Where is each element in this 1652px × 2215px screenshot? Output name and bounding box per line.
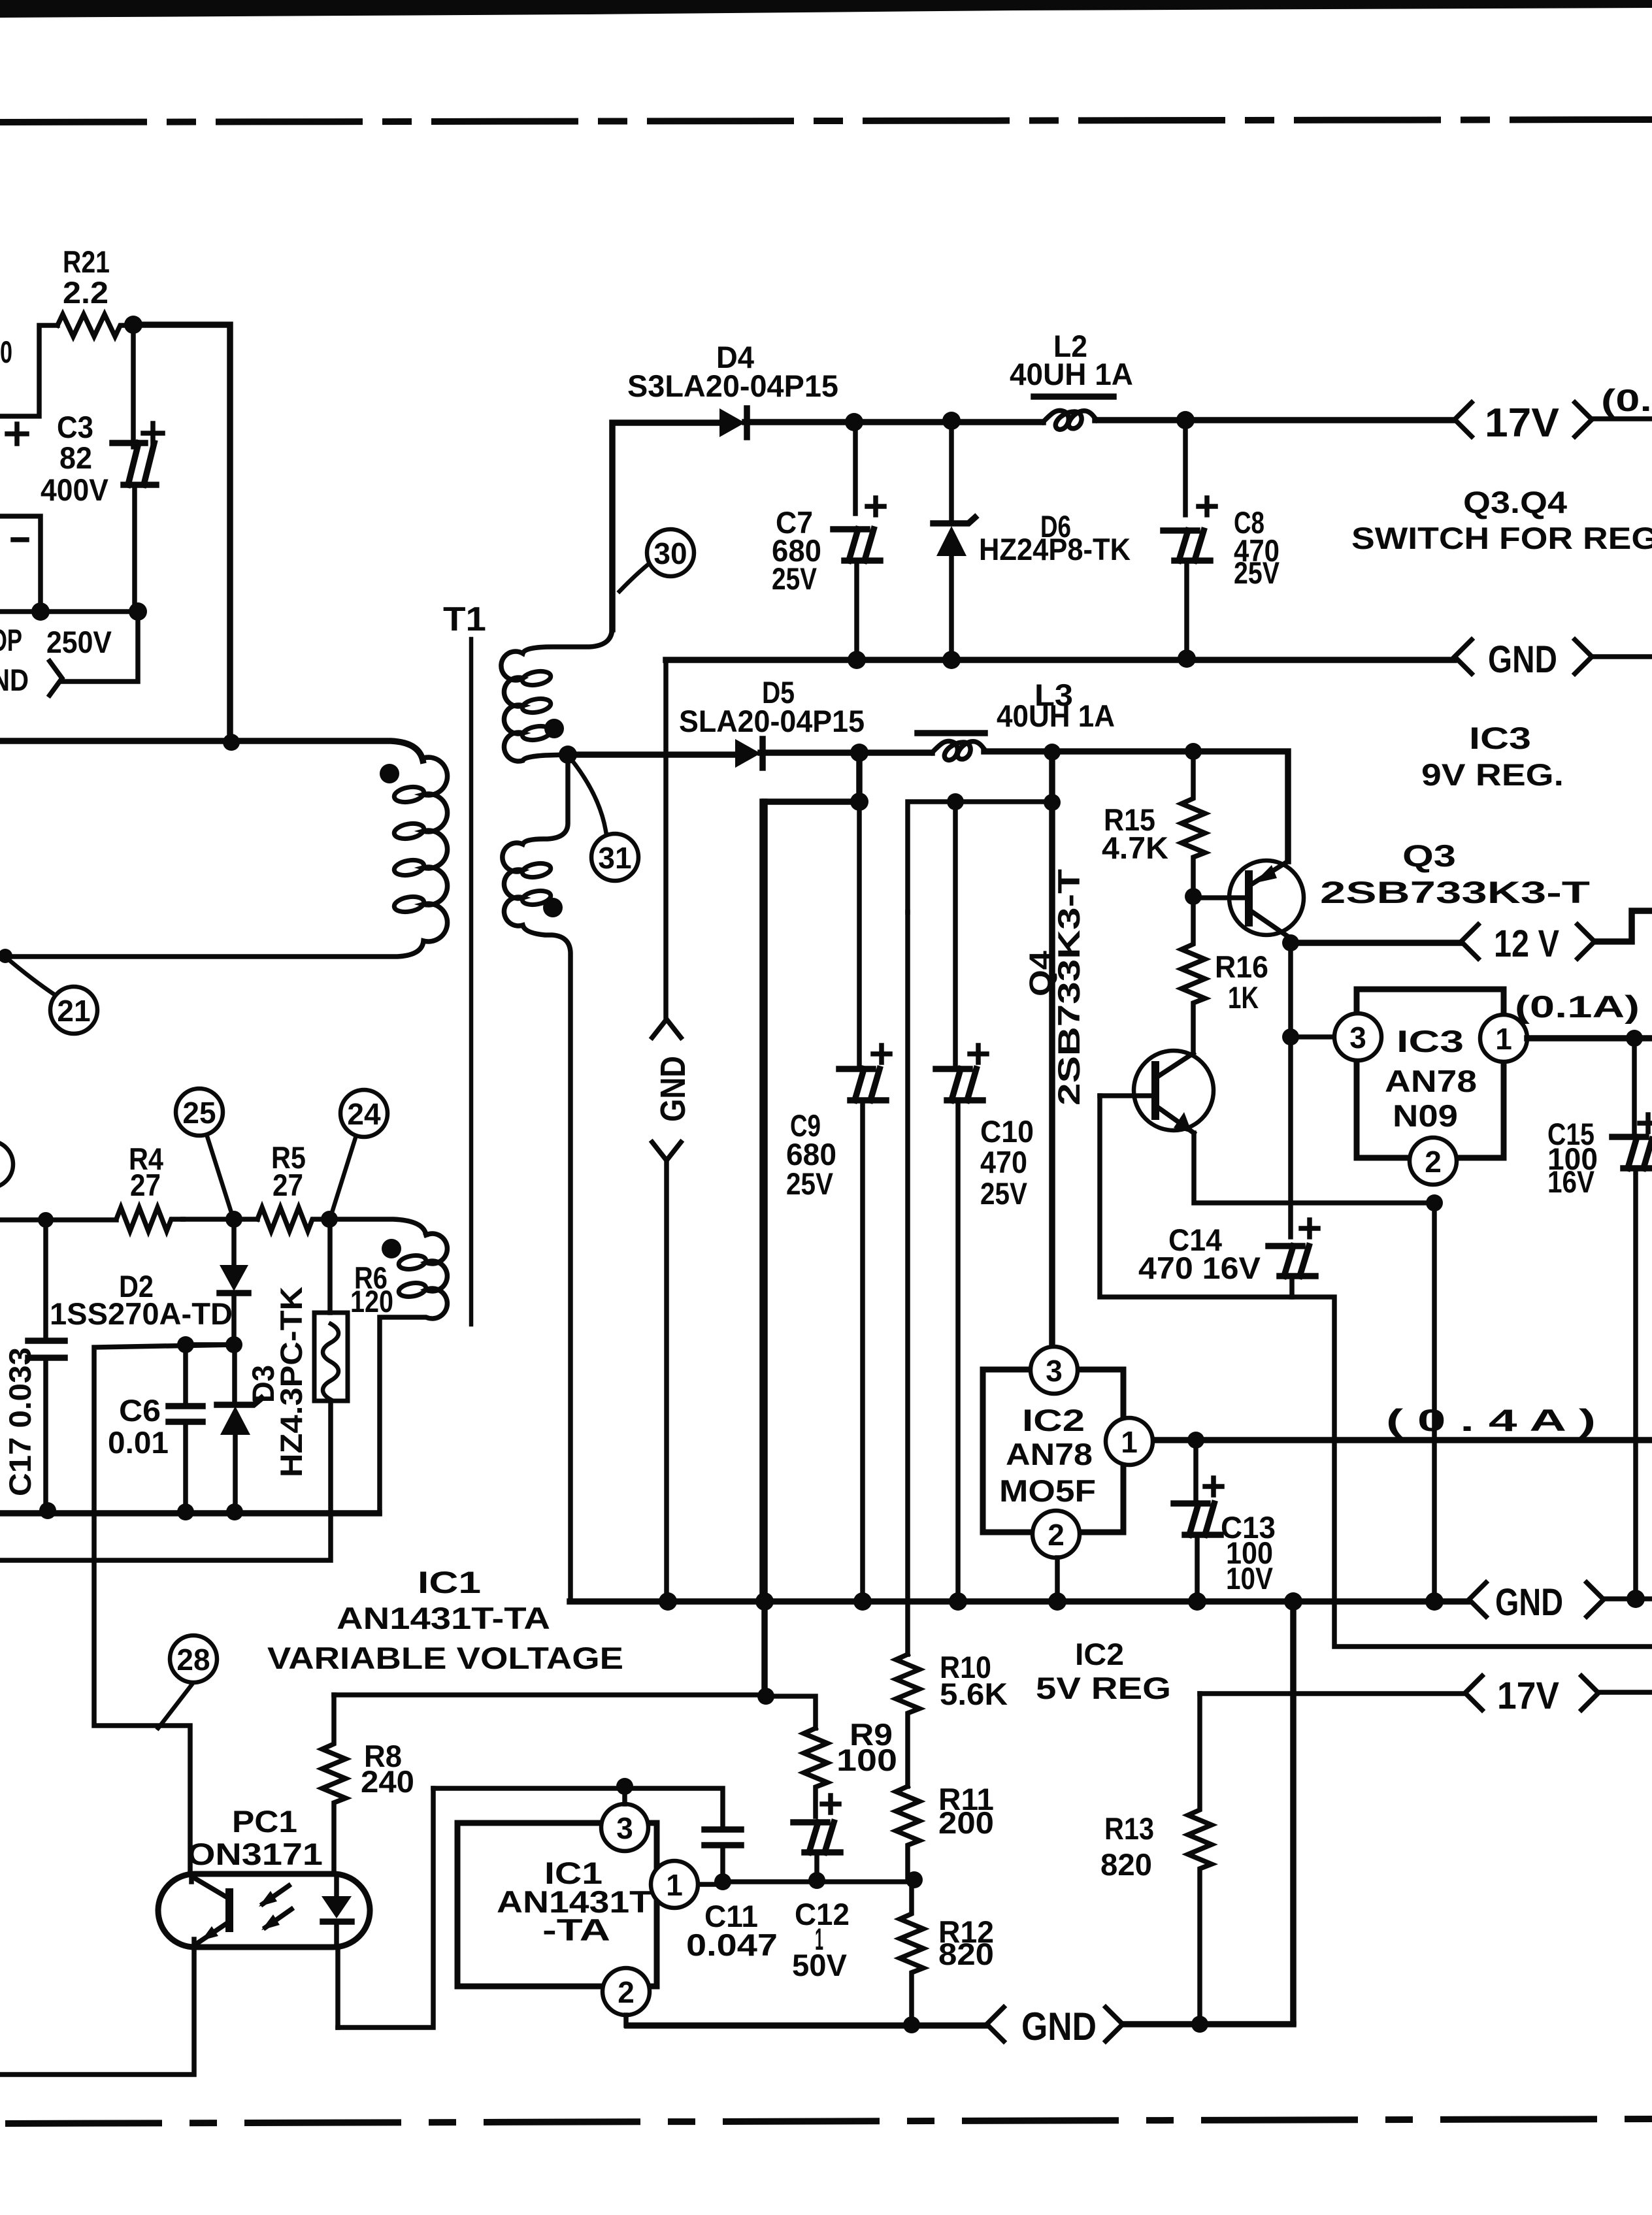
svg-text:IC3: IC3: [1396, 1024, 1464, 1058]
plus C10: [970, 1045, 987, 1062]
svg-text:R16: R16: [1215, 949, 1268, 984]
junction (1610,1228): [1044, 794, 1061, 811]
T1 secondary winding 1: [501, 628, 612, 761]
circled 31: [591, 834, 638, 881]
wire C10 branch: [953, 802, 958, 1065]
circled 25: [176, 1089, 223, 1136]
svg-text:25V: 25V: [1234, 555, 1280, 590]
plus C3: [143, 423, 163, 443]
label underlines L2 L3: [1034, 393, 1114, 400]
capacitor C7: [833, 529, 880, 561]
optocoupler PC1: [158, 1874, 370, 1947]
wire PC1 emitter to page edge: [0, 1947, 194, 2075]
svg-text:(0.1A): (0.1A): [1515, 989, 1640, 1024]
junction (2195,2451): [1425, 1592, 1444, 1611]
wire IC3 pin2 rail down: [1432, 1203, 1437, 1601]
svg-text:R21: R21: [63, 244, 110, 279]
resistor R10: [896, 1654, 919, 1786]
junction (284,2058): [177, 1336, 194, 1353]
svg-text:16V: 16V: [1547, 1164, 1595, 1199]
phase dot (596,1184): [380, 764, 399, 783]
svg-text:1: 1: [1121, 1425, 1138, 1459]
junction (1832,2451): [1188, 1592, 1206, 1611]
diode D4: [719, 408, 745, 437]
resistor R5: [257, 1207, 324, 1231]
IC2 pin 1: [1106, 1418, 1153, 1465]
wire L3 to Q3 emitter corner: [984, 751, 1288, 861]
wire 17V to page edge: [1592, 416, 1652, 421]
wire node R21-C3 to vertical rail: [133, 325, 230, 742]
connector GND top: [1455, 640, 1472, 674]
svg-text:27: 27: [273, 1168, 303, 1202]
svg-text:N09: N09: [1393, 1098, 1458, 1133]
svg-text:2: 2: [1425, 1145, 1442, 1179]
top chain border line: [0, 120, 1652, 122]
svg-text:25V: 25V: [772, 561, 818, 596]
svg-text:40UH 1A: 40UH 1A: [1010, 357, 1133, 391]
T1 core: [469, 639, 474, 1324]
wire 12V to page edge top corner: [1594, 911, 1652, 942]
wire IC2 pin2 to GND bus: [1055, 1558, 1060, 1601]
svg-text:IC2: IC2: [1022, 1403, 1085, 1437]
IC2 pin 3: [1031, 1347, 1078, 1394]
lower GND bus: [627, 2022, 985, 2029]
svg-text:3: 3: [1349, 1021, 1366, 1055]
wire thick rail to R8/R9 node: [761, 802, 768, 1696]
inductor L2: [1043, 410, 1097, 429]
junction (1816,1008): [1178, 649, 1196, 668]
scan top black bar: [0, 0, 1652, 18]
svg-text:2SB733K3-T: 2SB733K3-T: [1320, 875, 1590, 910]
GND vertical rail with inline connector: [663, 660, 669, 1017]
wire IC3 pin1 to 0.1A output: [1527, 1035, 1652, 1042]
IC3 box: [1357, 989, 1504, 1158]
svg-text:1SS270A-TD: 1SS270A-TD: [50, 1296, 233, 1331]
wire Q3 12V node: [1291, 940, 1460, 946]
wire D2 branch: [231, 1219, 237, 1264]
connector GND mid: [1469, 1583, 1486, 1616]
svg-text:100: 100: [836, 1743, 897, 1777]
IC3 pin 1: [1480, 1015, 1527, 1062]
svg-text:SLA20-04P15: SLA20-04P15: [679, 704, 865, 738]
junction (1399,2877): [906, 1871, 923, 1888]
resistor R9: [804, 1728, 827, 1816]
wire GND top to page edge: [1592, 654, 1652, 659]
phase dot (846,1389): [543, 898, 563, 917]
junction (1466,2451): [949, 1592, 967, 1611]
plus left edge: [7, 424, 27, 444]
wire IC1 pin3 rail: [622, 1786, 627, 1804]
junction (359,2314): [226, 1503, 243, 1520]
wire C13 branch: [1193, 1440, 1198, 1500]
svg-text:R13: R13: [1104, 1811, 1154, 1846]
capacitor C15: [1612, 1137, 1652, 1168]
capacitor C13: [1174, 1503, 1221, 1535]
wire Q4 collector to IC3 pin2: [1194, 1133, 1433, 1203]
svg-text:5.6K: 5.6K: [940, 1677, 1008, 1711]
box cut at left edge (C2): [0, 516, 41, 602]
connector 17V lower: [1465, 1676, 1482, 1710]
svg-text:470: 470: [980, 1145, 1027, 1179]
svg-text:C3: C3: [57, 410, 93, 444]
IC1 pin 2: [603, 1968, 650, 2015]
svg-text:AN1431T-TA: AN1431T-TA: [337, 1601, 550, 1635]
svg-text:25V: 25V: [786, 1166, 834, 1201]
capacitor C12: [793, 1822, 840, 1852]
junction (211,936): [129, 602, 147, 621]
wire IC1 pin1 rail: [698, 1882, 721, 1887]
leader circle 30: [619, 563, 650, 591]
(0.4A) bus from IC2 pin1: [1153, 1437, 1652, 1443]
svg-text:24: 24: [347, 1097, 381, 1131]
transistor Q3: [1229, 861, 1304, 935]
wire R5 to R6 winding: [324, 1219, 426, 1235]
junction (2501,1589): [1626, 1030, 1643, 1047]
junction (2195,1841): [1426, 1194, 1443, 1211]
svg-text:ON3171: ON3171: [187, 1837, 323, 1871]
resistor R13: [1188, 1694, 1212, 2024]
svg-text:ND: ND: [0, 663, 29, 697]
resistor R16: [1181, 896, 1205, 1052]
junction (8,1463): [0, 949, 12, 963]
svg-text:C6: C6: [119, 1393, 161, 1428]
svg-text:9V REG.: 9V REG.: [1421, 757, 1564, 792]
wire C15 branch: [1632, 1038, 1637, 1134]
svg-text:Q3.Q4: Q3.Q4: [1463, 485, 1567, 519]
wire D6 branch: [949, 420, 954, 521]
wire 28 net: D2/D3 node to PC1 collector: [94, 1345, 235, 1874]
svg-text:5V REG: 5V REG: [1036, 1671, 1171, 1705]
wire R4 to R5: [183, 1217, 257, 1222]
junction (1462,1227): [947, 793, 964, 810]
wire LED cathode loop: [338, 1788, 433, 2027]
T1 secondary winding 2: [503, 755, 570, 1601]
bus D2/D3/C6/C17 ground rail: [0, 1510, 379, 1517]
main GND bus mid: [570, 1598, 1468, 1605]
wire R10 rail down: [905, 912, 910, 1654]
circled 27 partial at edge: [0, 1141, 13, 1188]
svg-text:S3LA20-04P15: S3LA20-04P15: [627, 369, 838, 403]
junction (354,1136): [223, 734, 240, 751]
wire D4 rail down to T1 secondary 1: [612, 423, 719, 629]
IC1 pin 3: [601, 1804, 648, 1851]
svg-text:40UH 1A: 40UH 1A: [997, 698, 1115, 733]
capacitor C6: [169, 1406, 203, 1422]
svg-text:MO5F: MO5F: [999, 1473, 1096, 1508]
junction (1311,1010): [848, 651, 866, 669]
svg-text:AN78: AN78: [1006, 1437, 1093, 1471]
svg-text:( 0 . 4 A ): ( 0 . 4 A ): [1386, 1403, 1596, 1437]
svg-text:120: 120: [350, 1284, 393, 1319]
capacitor C11: [704, 1829, 741, 1845]
connector 17V top: [1455, 402, 1472, 436]
junction (1320,2451): [853, 1592, 872, 1611]
svg-text:Q3: Q3: [1402, 838, 1456, 873]
bottom chain border line: [5, 2119, 1652, 2124]
junction (504,1866): [321, 1211, 338, 1228]
svg-text:0.01: 0.01: [108, 1425, 169, 1460]
svg-text:21: 21: [57, 994, 90, 1028]
junction (869,1155): [559, 746, 577, 764]
wire Q4 base sense line: [1100, 1096, 1652, 1647]
wire 17V lower line: [1200, 1691, 1464, 1696]
svg-text:820: 820: [938, 1937, 994, 1971]
junction (1830,2204): [1187, 1432, 1204, 1449]
wire C17 branch: [43, 1220, 48, 1337]
junction (2503,2447): [1627, 1590, 1645, 1608]
IC1 box: [457, 1823, 657, 1986]
svg-text:17V: 17V: [1485, 401, 1559, 446]
junction (1395,3099): [903, 2016, 920, 2033]
wire IC2 pin3 rail: [1049, 753, 1055, 1347]
capacitor C9: [839, 1069, 886, 1100]
svg-text:17V: 17V: [1497, 1675, 1559, 1717]
T1 primary winding: [5, 757, 448, 957]
svg-text:AN78: AN78: [1385, 1064, 1477, 1098]
resistor R12: [900, 1880, 923, 2026]
circled 30: [647, 529, 694, 576]
junction (1814,643): [1176, 411, 1195, 429]
wire R21 left lead from page edge: [0, 325, 58, 416]
wire pin3 IC3 branch: [1291, 1034, 1334, 1040]
junction (1618,2451): [1048, 1592, 1066, 1611]
GND hook connector left: [50, 661, 62, 695]
wire IC1 pin2 to lower GND: [623, 2015, 629, 2026]
junction (1826,1372): [1185, 888, 1202, 905]
resistor R4: [116, 1207, 183, 1231]
IC3 pin 2: [1410, 1138, 1457, 1185]
junction (1456,1010): [942, 651, 961, 669]
svg-text:2: 2: [618, 1975, 635, 2009]
plus C9: [873, 1045, 890, 1062]
svg-text:82: 82: [59, 440, 92, 475]
svg-text:2SB733K3-T: 2SB733K3-T: [1051, 869, 1086, 1106]
resistor R11: [896, 1786, 919, 1880]
junction (358,1866): [225, 1211, 242, 1228]
svg-text:25V: 25V: [980, 1176, 1028, 1211]
junction (1456,644): [942, 412, 961, 430]
diode D2: [220, 1265, 248, 1291]
junction (62,936): [31, 602, 50, 621]
fusible resistor R6 box: [314, 1313, 348, 1401]
wire PC1 LED bottom: [335, 1947, 340, 2027]
svg-text:HZ24P8-TK: HZ24P8-TK: [979, 532, 1131, 566]
wire 17V lower to page edge: [1598, 1690, 1652, 1695]
svg-text:2.2: 2.2: [63, 275, 108, 310]
svg-text:GND: GND: [1488, 638, 1557, 681]
svg-text:0: 0: [0, 335, 12, 369]
svg-text:(0.: (0.: [1601, 383, 1652, 418]
junction (204,497): [124, 316, 142, 334]
minus mark in left box: [13, 537, 27, 542]
junction (956,2734): [616, 1778, 633, 1795]
junction (1975,1587): [1282, 1028, 1299, 1045]
circled 21: [50, 987, 97, 1034]
capacitor C17: [28, 1341, 65, 1358]
junction (1315,1227): [850, 793, 868, 811]
wire GND link vertical: [1290, 1601, 1297, 2023]
capacitor C8: [1163, 531, 1210, 561]
wire R4R5 rail from page edge: [0, 1217, 116, 1222]
svg-text:0.047: 0.047: [686, 1928, 778, 1962]
svg-text:GND: GND: [653, 1056, 693, 1122]
svg-text:PC1: PC1: [232, 1804, 297, 1839]
svg-text:250V: 250V: [46, 625, 112, 659]
connector 12V: [1461, 925, 1478, 959]
svg-text:3: 3: [1046, 1354, 1063, 1388]
svg-text:27: 27: [130, 1168, 161, 1202]
svg-text:12 V: 12 V: [1494, 923, 1559, 965]
svg-text:1: 1: [666, 1868, 683, 1902]
circled 28: [170, 1635, 217, 1682]
wire 250V node line: [0, 609, 138, 614]
junction (1975,1443): [1282, 934, 1299, 951]
svg-text:1K: 1K: [1228, 980, 1259, 1015]
junction (73,2312): [39, 1502, 56, 1519]
wire rail to IC2 pin3 segment: [908, 802, 1052, 912]
wire D5 to L3: [761, 749, 932, 756]
leader circle 31: [571, 759, 606, 835]
wire D2/D3 node to C6: [186, 1345, 235, 1402]
zener D6: [933, 517, 975, 523]
IC2 pin 2: [1032, 1511, 1080, 1558]
plus C13: [1205, 1478, 1222, 1495]
junction (1836,3098): [1191, 2016, 1208, 2033]
IC3 pin 3: [1334, 1013, 1381, 1060]
leader circle 28: [158, 1682, 193, 1728]
wire R9 jog: [766, 1696, 816, 1728]
svg-text:1: 1: [1495, 1022, 1512, 1056]
junction (1979,2451): [1284, 1592, 1302, 1611]
zener D3: [232, 1345, 237, 1402]
junction (358,2058): [225, 1336, 242, 1353]
wire L2 to 17V connector: [1095, 417, 1454, 423]
svg-text:T1: T1: [443, 600, 486, 638]
rotated labels: [3, 869, 1086, 1496]
wire C7 branch: [853, 421, 858, 514]
IC1 pin 1: [651, 1861, 698, 1908]
svg-text:240: 240: [361, 1764, 414, 1799]
plus C15: [1640, 1115, 1652, 1132]
leader circle 24: [331, 1136, 356, 1217]
plus C7: [867, 498, 884, 515]
wire C9 branch: [857, 802, 862, 1065]
svg-text:VARIABLE VOLTAGE: VARIABLE VOLTAGE: [267, 1641, 623, 1675]
phase dot (848,1115): [544, 719, 564, 738]
plus C12: [822, 1796, 839, 1813]
junction (1022,2451): [659, 1592, 677, 1611]
junction (1170,2451): [755, 1592, 774, 1611]
svg-text:4.7K: 4.7K: [1102, 830, 1168, 865]
svg-text:10V: 10V: [1226, 1561, 1274, 1596]
IC2 box: [983, 1370, 1123, 1532]
svg-text:C17 0.033: C17 0.033: [3, 1347, 37, 1496]
svg-text:IC3: IC3: [1469, 721, 1531, 755]
plus C8: [1198, 498, 1215, 515]
svg-text:OP: OP: [0, 623, 22, 657]
GND top bus: [666, 657, 1454, 663]
svg-text:28: 28: [176, 1643, 210, 1677]
svg-text:IC1: IC1: [418, 1565, 481, 1600]
wire GND mid to page edge: [1604, 1596, 1652, 1601]
junction (1315,1152): [850, 744, 868, 762]
capacitor C14: [1268, 1246, 1315, 1276]
junction (1106,2880): [714, 1873, 731, 1890]
R6 aux winding: [380, 1234, 447, 1513]
capacitor C3 (electrolytic): [112, 443, 156, 485]
connector GND lower: [987, 2007, 1004, 2041]
wire D4 to L2: [745, 419, 1043, 425]
resistor R15: [1181, 751, 1205, 896]
svg-text:820: 820: [1100, 1847, 1152, 1882]
bus to T1 primary top: [0, 741, 423, 761]
junction (1826,1150): [1185, 743, 1202, 760]
svg-text:470 16V: 470 16V: [1138, 1251, 1261, 1285]
leader circle 21: [7, 958, 56, 996]
junction (284,2314): [177, 1503, 194, 1520]
junction (1172,2596): [757, 1688, 774, 1705]
resistor R8: [322, 1695, 346, 1874]
junction (70,1867): [38, 1212, 54, 1228]
svg-text:-TA: -TA: [542, 1912, 610, 1947]
wire D5 line from winding junction: [568, 751, 735, 758]
wire GND lower right portion: [1123, 2021, 1293, 2027]
plus C14: [1301, 1220, 1318, 1237]
junction (1610,1151): [1044, 744, 1061, 761]
svg-text:50V: 50V: [792, 1948, 848, 1982]
svg-text:GND: GND: [1495, 1581, 1563, 1624]
svg-text:31: 31: [598, 841, 631, 875]
svg-text:C10: C10: [980, 1114, 1034, 1149]
svg-text:200: 200: [938, 1805, 994, 1840]
svg-text:IC2: IC2: [1075, 1637, 1124, 1671]
wire rail 9V node down-left: [763, 753, 859, 1601]
phase dot (599,1911): [382, 1239, 401, 1258]
svg-text:SWITCH FOR REG: SWITCH FOR REG: [1351, 521, 1652, 555]
svg-text:2: 2: [1048, 1518, 1065, 1552]
leader circle 25: [206, 1134, 233, 1217]
wire C14 rail: [1288, 943, 1293, 1237]
wire R6 vertical: [0, 1219, 331, 1560]
resistor R21: [58, 314, 133, 336]
wire C8 branch: [1183, 419, 1188, 515]
inductor L3: [932, 741, 985, 760]
junction (1250,2878): [808, 1872, 825, 1889]
svg-text:400V: 400V: [41, 472, 109, 507]
svg-text:GND: GND: [1021, 2005, 1097, 2048]
svg-text:25: 25: [182, 1096, 216, 1130]
transistor Q4: [1134, 1051, 1214, 1130]
capacitor C10: [936, 1069, 983, 1100]
wire from GND hook up to 250V node: [62, 612, 138, 681]
svg-text:HZ4.3PC-TK: HZ4.3PC-TK: [274, 1287, 308, 1477]
junction (1307,646): [845, 413, 863, 431]
wire R8 feedback line: [334, 1692, 766, 1698]
circled 24: [340, 1090, 388, 1137]
svg-text:30: 30: [653, 536, 687, 570]
svg-text:3: 3: [616, 1811, 633, 1845]
diode D5: [735, 739, 761, 768]
wire C3 branch vertical: [131, 325, 136, 447]
